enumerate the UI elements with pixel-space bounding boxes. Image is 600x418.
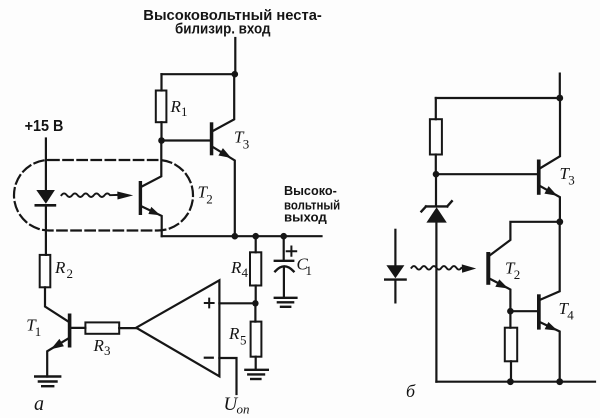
- wire +15V to LED: [45, 139, 47, 191]
- svg-text:Высоко-: Высоко-: [284, 184, 337, 198]
- node input/R1/T3 collector: [232, 71, 239, 78]
- wire node to zener: [435, 174, 437, 206]
- svg-text:R: R: [170, 97, 182, 116]
- wire R1 top: [160, 74, 162, 90]
- svg-text:R: R: [228, 324, 240, 343]
- wire T4 base: [510, 310, 537, 312]
- label +15 В: [25, 118, 64, 135]
- wire T3 base right: [436, 173, 537, 175]
- wire resistor to node: [435, 155, 437, 175]
- op-amp U1: [136, 280, 219, 376]
- label Uop: [224, 394, 250, 417]
- wire C1 top: [283, 236, 285, 260]
- transistor T3 right: [537, 98, 575, 222]
- label: input text: [143, 7, 322, 38]
- node zener/T3 base: [433, 171, 440, 178]
- svg-text:5: 5: [240, 333, 247, 348]
- zener diode: [421, 201, 451, 222]
- ground T1: [35, 377, 60, 387]
- node T3 emitter right: [556, 218, 563, 225]
- svg-text:б: б: [406, 381, 416, 401]
- svg-text:2: 2: [67, 266, 74, 281]
- wire input vertical: [234, 38, 236, 74]
- svg-text:выход: выход: [284, 210, 327, 224]
- resistor upper right: [430, 119, 442, 154]
- wire lower resistor bottom: [510, 361, 512, 381]
- wire C1 bottom: [283, 267, 285, 297]
- wire zener to bottom line: [435, 223, 437, 382]
- transistor T4: [537, 222, 574, 382]
- svg-text:3: 3: [568, 173, 575, 188]
- wire bottom line: [436, 381, 595, 383]
- svg-text:билизир. вход: билизир. вход: [175, 21, 271, 38]
- svg-text:а: а: [34, 393, 44, 415]
- svg-text:R: R: [230, 258, 242, 277]
- resistor R3: [85, 322, 119, 333]
- wire right top horizontal: [436, 97, 560, 99]
- wire lower resistor top: [509, 311, 511, 328]
- resistor R1: [156, 91, 167, 123]
- wire T1 base: [71, 327, 85, 329]
- wire right top vertical: [559, 74, 561, 98]
- svg-text:2: 2: [206, 192, 213, 207]
- node right top: [556, 95, 563, 102]
- wire LED to R2: [45, 205, 47, 255]
- ground C1: [275, 298, 297, 307]
- wire op-amp plus input: [219, 302, 255, 304]
- light arrow right: [411, 264, 476, 272]
- wire R5 top: [254, 303, 256, 321]
- wire op-amp minus input to Uop: [219, 358, 236, 394]
- svg-text:4: 4: [567, 308, 574, 323]
- wire R2 to T1 collector: [45, 287, 68, 321]
- node C1/output: [280, 233, 287, 240]
- label output text: [284, 184, 340, 224]
- node T2 emitter/T4 base: [507, 308, 514, 315]
- wire R5 bottom: [255, 357, 257, 370]
- svg-text:оп: оп: [237, 402, 250, 417]
- transistor T3: [210, 74, 250, 236]
- transistor T1: [26, 314, 71, 377]
- transistor T2 right: [486, 222, 560, 311]
- svg-text:1: 1: [35, 324, 42, 339]
- ground R5: [245, 370, 267, 379]
- wire to upper resistor: [435, 98, 437, 119]
- light arrow to T2: [61, 192, 133, 200]
- resistor R5: [251, 322, 262, 357]
- transistor T2 (phototransistor): [139, 141, 213, 237]
- resistor R4: [250, 252, 261, 285]
- LED right: [385, 230, 405, 303]
- svg-text:R: R: [93, 336, 105, 355]
- svg-text:2: 2: [514, 267, 521, 282]
- svg-text:1: 1: [181, 104, 188, 119]
- wire T3 base: [162, 139, 210, 141]
- resistor R2: [40, 255, 51, 287]
- wire R1 bottom: [160, 122, 162, 140]
- node T4 emitter/bottom: [556, 378, 563, 385]
- node R1/T3 base/T2 collector: [158, 137, 165, 144]
- node R4/R5/op-amp: [252, 300, 258, 306]
- node T3 emitter/output: [232, 233, 239, 240]
- node lower resistor/bottom: [507, 378, 514, 385]
- wire R3 to op-amp: [119, 327, 136, 329]
- wire output line: [162, 235, 322, 237]
- label b: [406, 381, 416, 401]
- optocoupler dashed outline: [14, 160, 193, 231]
- wire R4 bottom: [255, 286, 257, 304]
- capacitor C1: [275, 247, 312, 279]
- svg-text:4: 4: [242, 265, 249, 280]
- svg-text:3: 3: [104, 343, 111, 358]
- svg-text:3: 3: [243, 137, 250, 152]
- label a: [34, 393, 44, 415]
- resistor lower right: [505, 328, 517, 362]
- node R4/output: [252, 233, 259, 240]
- wire top horizontal to R1: [162, 73, 235, 75]
- LED diode: [36, 190, 55, 205]
- wire R4 top: [255, 236, 257, 252]
- svg-text:1: 1: [306, 263, 313, 278]
- svg-text:R: R: [54, 258, 66, 277]
- svg-text:+15 В: +15 В: [25, 118, 64, 135]
